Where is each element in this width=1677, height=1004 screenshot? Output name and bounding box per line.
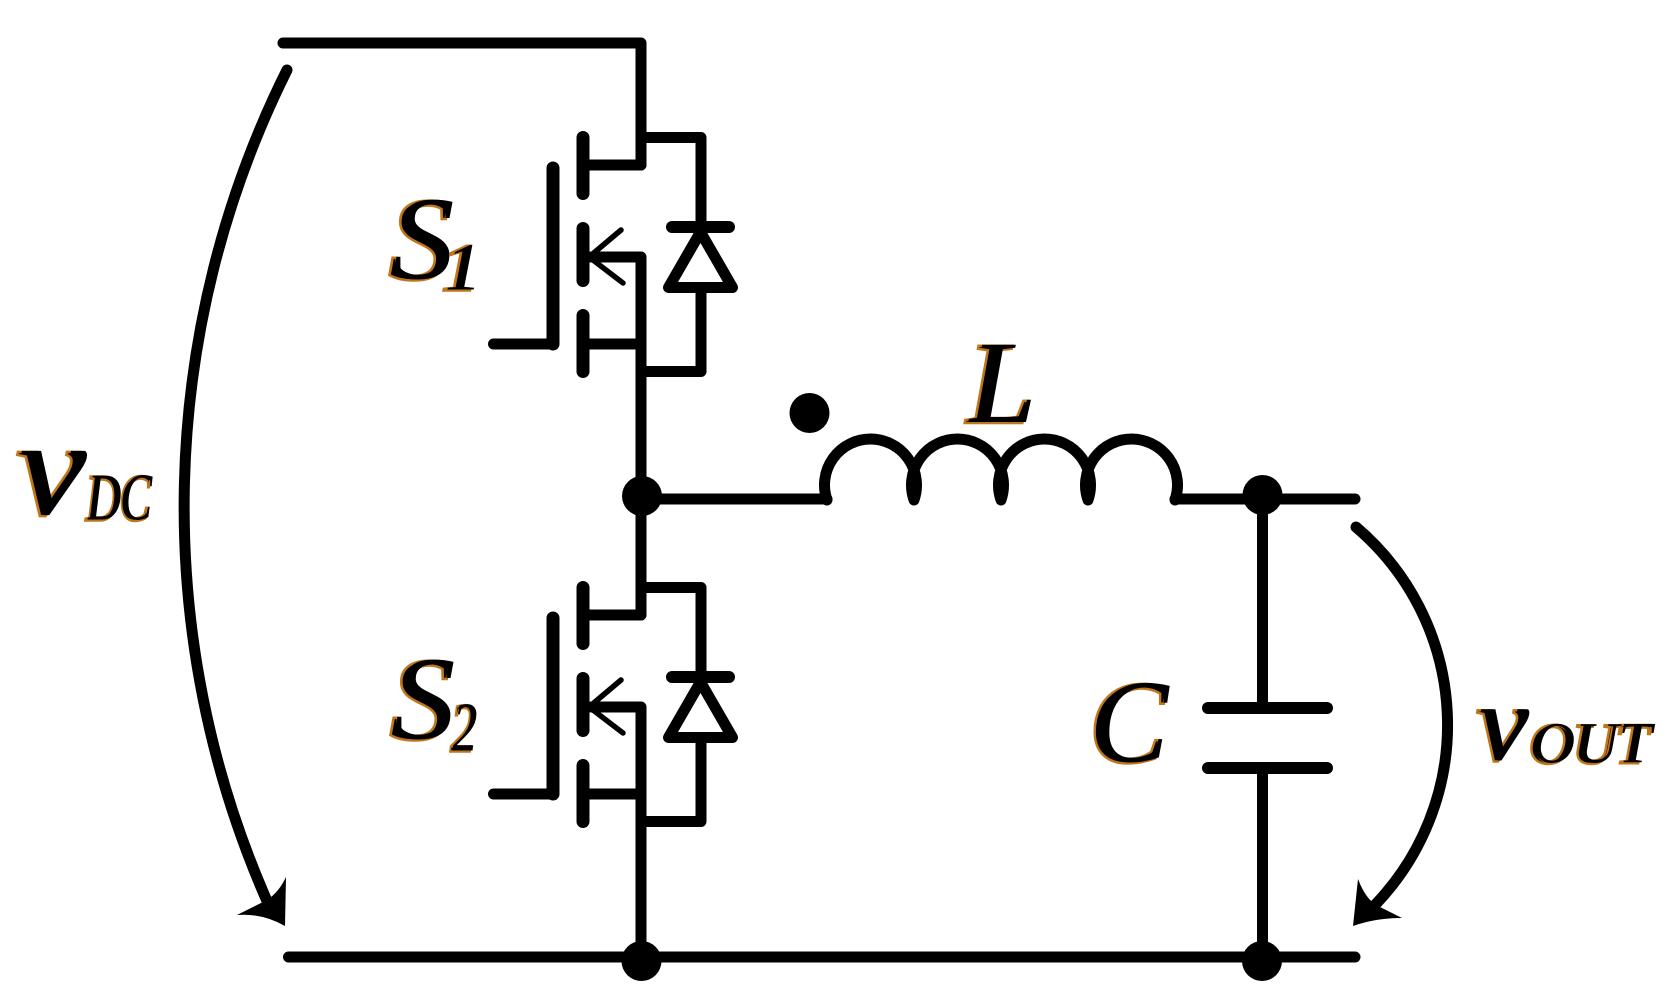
- diode D1 triangle: [669, 232, 733, 288]
- wire top rail to S1 drain: [283, 43, 641, 165]
- capacitor C bottom lead: [1257, 774, 1268, 952]
- inductor L humps: [824, 439, 1177, 500]
- diode D1 anode wire: [641, 288, 701, 372]
- arrow arc vDC: [184, 70, 287, 901]
- label vOUT: [1476, 662, 1531, 784]
- node B output junction dot: [1243, 475, 1283, 515]
- capacitor C top lead: [1257, 495, 1268, 702]
- label L: [964, 317, 1037, 449]
- transistor S1 arrow barb upper: [589, 230, 621, 257]
- transistor S2 channel dash bottom: [577, 766, 590, 822]
- node A switch-node junction dot: [622, 476, 662, 516]
- phase dot marker: [790, 393, 830, 433]
- diode D2 anode wire: [641, 738, 701, 822]
- svg-text:v: v: [1479, 662, 1530, 783]
- node C bottom junction dot: [1242, 941, 1282, 981]
- transistor S1 channel dash top: [577, 138, 590, 194]
- diode D2 triangle: [669, 682, 733, 738]
- diode D1 cathode bar: [672, 221, 729, 233]
- node D switch leg bottom junction dot: [622, 941, 662, 981]
- wire S2 source to bottom rail: [636, 794, 647, 957]
- capacitor C top plate: [1208, 702, 1327, 714]
- transistor S2 gate lead: [494, 789, 554, 800]
- transistor S2 channel dash middle: [577, 679, 590, 731]
- arrow arc vOUT: [1356, 527, 1448, 906]
- label vDC: [15, 393, 87, 545]
- transistor S2 drain lead: [583, 610, 641, 621]
- arrowhead vOUT: [1353, 879, 1402, 926]
- transistor S2 arrow barb lower: [589, 707, 623, 733]
- transistor S2 gate bar: [547, 618, 560, 794]
- svg-text:OUT: OUT: [1532, 710, 1656, 775]
- arrowhead vDC: [237, 877, 286, 926]
- svg-text:2: 2: [453, 689, 478, 766]
- svg-text:v: v: [19, 393, 87, 544]
- transistor S2 body lead: [591, 707, 641, 794]
- wire inductor to output stub: [1175, 494, 1355, 505]
- label S1: [388, 173, 454, 305]
- label S2: [389, 633, 455, 765]
- diode D1 cathode wire: [641, 138, 701, 228]
- transistor S1 arrow barb lower: [589, 257, 623, 283]
- wire node to S2 drain: [636, 499, 647, 615]
- svg-text:1: 1: [445, 230, 482, 304]
- transistor S1 gate lead: [494, 339, 554, 350]
- wire S1 source to node: [636, 344, 647, 499]
- svg-text:S: S: [393, 633, 456, 764]
- transistor S1 channel dash middle: [577, 229, 590, 281]
- transistor S1 body lead: [591, 257, 641, 344]
- transistor S1 channel dash bottom: [577, 316, 590, 372]
- svg-text:C: C: [1092, 657, 1171, 788]
- transistor S1 gate bar: [547, 168, 560, 344]
- svg-text:L: L: [968, 317, 1037, 448]
- diode D2 cathode bar: [672, 671, 729, 683]
- wire node to inductor: [642, 494, 828, 505]
- transistor S2 channel dash top: [577, 588, 590, 644]
- capacitor C bottom plate: [1208, 762, 1327, 774]
- svg-text:DC: DC: [87, 462, 153, 535]
- transistor S1 source lead: [583, 339, 641, 350]
- diode D2 cathode wire: [641, 588, 701, 678]
- transistor S2 source lead: [583, 789, 641, 800]
- transistor S2 arrow barb upper: [589, 680, 621, 707]
- wire bottom rail: [289, 952, 1356, 963]
- transistor S1 drain lead: [583, 160, 641, 171]
- label C: [1088, 657, 1170, 789]
